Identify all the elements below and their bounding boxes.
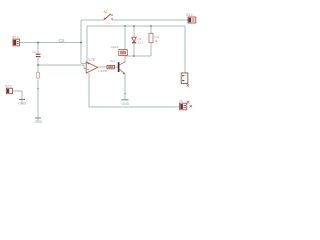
svg-text:C8: C8 <box>32 50 36 54</box>
svg-text:S2: S2 <box>104 10 108 14</box>
svg-text:X3-1: X3-1 <box>186 13 193 17</box>
svg-text:R12: R12 <box>110 59 116 63</box>
svg-text:IC2B: IC2B <box>88 58 95 62</box>
svg-text:LM358: LM358 <box>99 69 108 73</box>
svg-text:LED2: LED2 <box>111 45 119 49</box>
svg-text:X2-2: X2-2 <box>5 84 12 88</box>
svg-text:X4: X4 <box>179 99 183 103</box>
svg-text:GND: GND <box>19 102 27 106</box>
svg-text:Z5.1: Z5.1 <box>138 41 144 45</box>
svg-text:C9: C9 <box>59 38 65 43</box>
svg-text:X2-1: X2-1 <box>12 36 19 40</box>
svg-text:GND: GND <box>35 120 43 124</box>
svg-text:GND: GND <box>122 102 130 106</box>
